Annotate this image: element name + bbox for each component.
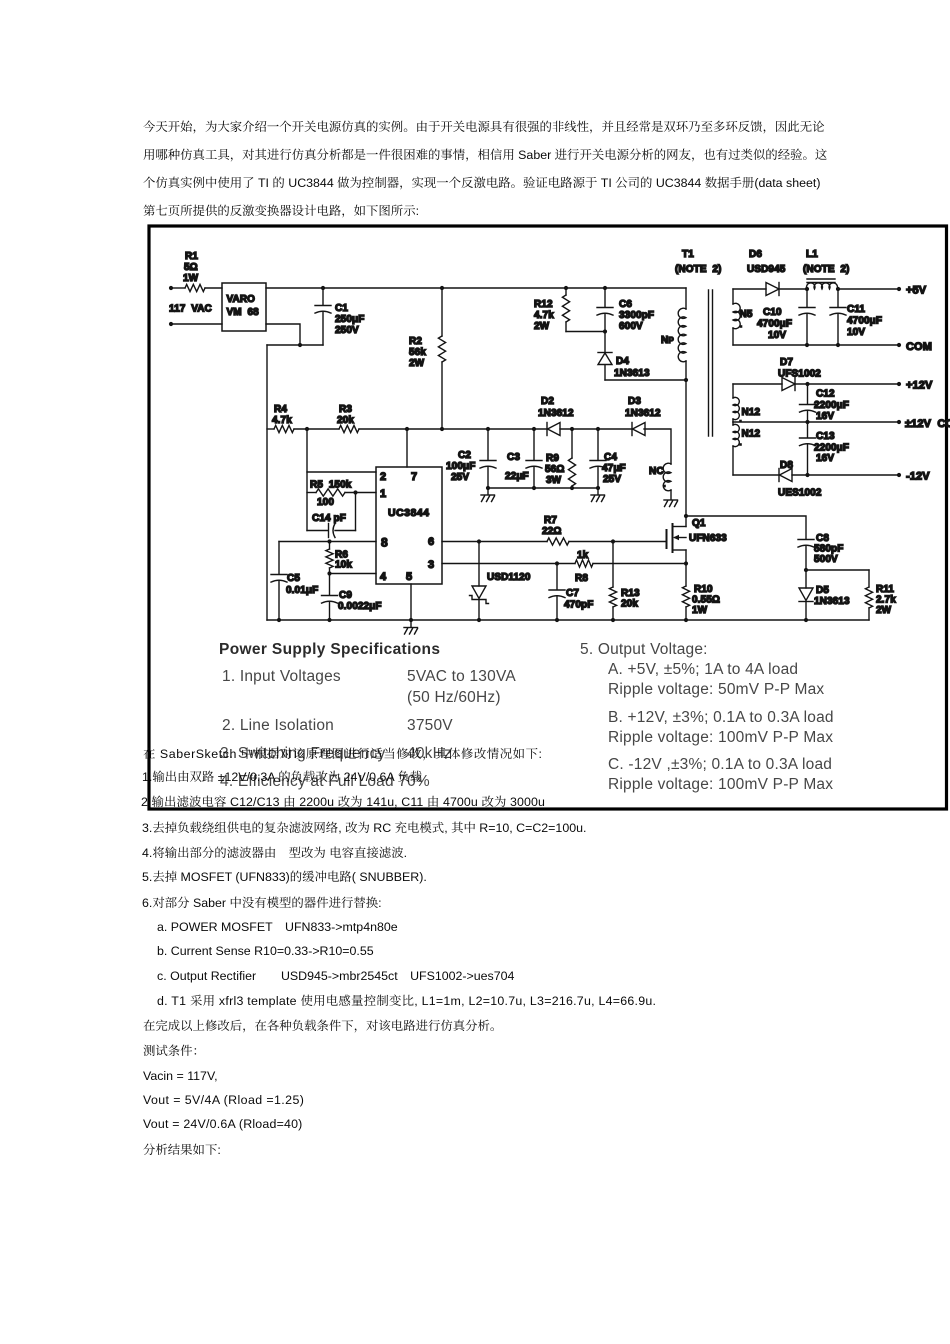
svg-text:1N3612: 1N3612 xyxy=(538,408,574,419)
svg-text:L1: L1 xyxy=(806,249,818,260)
junction xyxy=(277,618,281,622)
svg-text:2200μF: 2200μF xyxy=(814,443,849,454)
svg-text:N12: N12 xyxy=(742,407,761,418)
svg-text:3W: 3W xyxy=(546,475,562,486)
resistor R8 xyxy=(575,560,593,567)
junction xyxy=(611,618,615,622)
svg-text:C5: C5 xyxy=(287,573,300,584)
phase dot xyxy=(739,443,742,446)
svg-text:22Ω: 22Ω xyxy=(542,526,561,537)
wire pin7 VCC xyxy=(406,429,408,467)
junction xyxy=(805,287,809,291)
junction xyxy=(596,427,600,431)
svg-text:1k: 1k xyxy=(577,550,589,561)
svg-text:2.7k: 2.7k xyxy=(876,595,896,606)
svg-text:20k: 20k xyxy=(337,415,354,426)
junction xyxy=(684,378,688,382)
svg-text:C10: C10 xyxy=(763,307,782,318)
svg-text:10V: 10V xyxy=(847,327,865,338)
wire xyxy=(569,541,667,543)
svg-text:COM: COM xyxy=(906,341,932,353)
phase dot xyxy=(663,485,666,488)
diode USD1120 xyxy=(478,542,480,587)
wire xyxy=(779,288,806,290)
diode D8 xyxy=(733,474,779,476)
svg-text:600V: 600V xyxy=(619,321,643,332)
diode D2 xyxy=(546,423,548,436)
svg-text:250V: 250V xyxy=(335,325,359,336)
diode D4 xyxy=(604,332,606,353)
svg-text:R8: R8 xyxy=(575,573,588,584)
capacitor C6 xyxy=(603,286,607,290)
wire bottom rail xyxy=(267,619,869,621)
capacitor C1 xyxy=(321,286,325,290)
svg-text:R9: R9 xyxy=(546,453,559,464)
svg-text:2W: 2W xyxy=(409,358,425,369)
junction xyxy=(477,618,481,622)
junction xyxy=(327,618,331,622)
svg-text:3: 3 xyxy=(428,559,434,571)
svg-text:500V: 500V xyxy=(814,554,838,565)
svg-text:100: 100 xyxy=(317,497,334,508)
transformer winding N5 xyxy=(732,289,734,304)
wire left bus xyxy=(266,345,268,620)
wire xyxy=(267,344,323,346)
svg-text:2200μF: 2200μF xyxy=(814,400,849,411)
resistor R11 xyxy=(868,570,870,587)
wire xyxy=(605,379,686,381)
transformer winding NC xyxy=(663,463,671,491)
svg-text:3300pF: 3300pF xyxy=(619,310,654,321)
svg-text:D3: D3 xyxy=(628,396,641,407)
capacitor C14 xyxy=(307,530,328,532)
junction xyxy=(805,473,809,477)
svg-text:R11: R11 xyxy=(876,584,894,595)
svg-text:470pF: 470pF xyxy=(564,600,593,611)
capacitor C5 xyxy=(278,542,280,574)
node 12V COM xyxy=(897,420,901,424)
svg-text:580pF: 580pF xyxy=(814,544,843,555)
wire xyxy=(560,428,632,430)
resistor R6 xyxy=(329,542,331,550)
ground xyxy=(591,494,605,496)
svg-text:N12: N12 xyxy=(742,429,761,440)
junction xyxy=(570,427,574,431)
wire vcc rail xyxy=(267,428,274,430)
svg-text:1N3613: 1N3613 xyxy=(614,368,650,379)
svg-text:D7: D7 xyxy=(780,357,793,368)
diode D7 xyxy=(733,383,782,385)
svg-text:1: 1 xyxy=(380,488,386,500)
svg-text:+5V: +5V xyxy=(906,285,927,297)
capacitor C4 xyxy=(597,429,599,460)
svg-text:R13: R13 xyxy=(621,588,640,599)
capacitor C9 xyxy=(329,574,331,595)
resistor R13 xyxy=(612,542,614,588)
node +5V xyxy=(897,287,901,291)
junction xyxy=(477,539,481,543)
node +12V xyxy=(897,382,901,386)
wire pin2 VFB xyxy=(307,471,376,473)
svg-text:1N3612: 1N3612 xyxy=(625,408,661,419)
svg-text:4700μF: 4700μF xyxy=(847,316,882,327)
wire xyxy=(355,493,357,531)
junction xyxy=(555,561,559,565)
svg-text:N5: N5 xyxy=(740,309,753,320)
svg-text:Q1: Q1 xyxy=(692,518,706,529)
junction xyxy=(805,382,809,386)
svg-text:C4: C4 xyxy=(604,452,617,463)
wire xyxy=(597,488,599,495)
svg-text:0.01μF: 0.01μF xyxy=(286,585,318,596)
svg-text:C6: C6 xyxy=(619,299,632,310)
junction xyxy=(327,571,331,575)
svg-text:R5 150k: R5 150k xyxy=(310,480,352,491)
phase dot xyxy=(739,420,742,423)
svg-text:C8: C8 xyxy=(816,533,829,544)
svg-text:VARO: VARO xyxy=(227,294,256,305)
svg-text:100μF: 100μF xyxy=(446,461,475,472)
wire xyxy=(837,288,899,290)
junction xyxy=(532,427,536,431)
svg-text:117 VAC: 117 VAC xyxy=(169,304,212,315)
svg-text:4.7k: 4.7k xyxy=(272,415,292,426)
wire pin6 OUT gate drive xyxy=(442,541,547,543)
diode D6 xyxy=(733,288,766,290)
ground xyxy=(664,499,678,501)
ground xyxy=(481,494,495,496)
junction xyxy=(555,618,559,622)
wire xyxy=(359,428,547,430)
svg-text:D6: D6 xyxy=(749,249,762,260)
svg-text:USD1120: USD1120 xyxy=(487,572,531,583)
wire xyxy=(487,488,489,495)
ground xyxy=(404,627,418,629)
svg-text:C13: C13 xyxy=(816,431,835,442)
wire xyxy=(294,428,339,430)
wire xyxy=(593,563,686,565)
svg-text:R3: R3 xyxy=(339,404,352,415)
bridge rectifier VARO VM 68 xyxy=(222,283,266,331)
junction xyxy=(298,343,302,347)
junction xyxy=(684,514,688,518)
svg-text:+12V: +12V xyxy=(906,380,933,392)
svg-text:1W: 1W xyxy=(183,273,199,284)
svg-text:C7: C7 xyxy=(566,588,579,599)
capacitor C8 xyxy=(798,539,814,541)
junction xyxy=(804,618,808,622)
wire snubber xyxy=(686,516,806,539)
wire xyxy=(205,287,222,289)
phase dot xyxy=(740,325,743,328)
wire xyxy=(171,323,222,325)
resistor R4 xyxy=(274,425,294,432)
svg-text:R2: R2 xyxy=(409,336,422,347)
transistor Q1 UFN633 xyxy=(666,530,668,548)
svg-text:±12V COM: ±12V COM xyxy=(905,418,950,430)
wire pin3 ISENSE xyxy=(442,563,575,565)
svg-text:25V: 25V xyxy=(451,472,469,483)
svg-text:C12: C12 xyxy=(816,389,835,400)
svg-text:10k: 10k xyxy=(335,560,352,571)
svg-text:1W: 1W xyxy=(692,605,708,616)
svg-text:UFN633: UFN633 xyxy=(689,533,727,544)
capacitor C7 xyxy=(556,564,558,590)
svg-text:2W: 2W xyxy=(876,605,892,616)
svg-text:UC3844: UC3844 xyxy=(388,507,430,519)
svg-text:250μF: 250μF xyxy=(335,314,364,325)
wire COM rail xyxy=(733,344,899,346)
transformer T1 primary winding NP xyxy=(685,288,687,309)
transformer winding N12 lower xyxy=(732,422,734,425)
junction xyxy=(327,539,331,543)
svg-text:R10: R10 xyxy=(694,584,713,595)
capacitor C12 xyxy=(807,384,809,404)
svg-text:6: 6 xyxy=(428,536,434,548)
wire drain xyxy=(685,380,687,516)
svg-text:(NOTE 2): (NOTE 2) xyxy=(803,264,849,275)
svg-text:R7: R7 xyxy=(544,515,557,526)
wire pin5 GND xyxy=(410,584,412,627)
svg-text:UFS1002: UFS1002 xyxy=(778,369,821,380)
diode D3 xyxy=(631,423,633,436)
wire xyxy=(171,287,185,289)
svg-text:7: 7 xyxy=(411,471,417,483)
junction xyxy=(805,343,809,347)
junction xyxy=(611,539,615,543)
node -12V xyxy=(897,473,901,477)
svg-text:C11: C11 xyxy=(847,304,865,315)
resistor R3 xyxy=(339,425,359,432)
svg-text:2W: 2W xyxy=(534,321,550,332)
svg-text:R4: R4 xyxy=(274,404,287,415)
svg-text:NP: NP xyxy=(661,335,674,346)
junction xyxy=(353,490,357,494)
transformer T1 core xyxy=(708,290,710,436)
svg-text:D8: D8 xyxy=(780,460,793,471)
svg-text:-12V: -12V xyxy=(906,471,930,483)
capacitor C2 xyxy=(487,429,489,460)
junction xyxy=(836,287,840,291)
svg-text:4: 4 xyxy=(380,571,387,583)
wire xyxy=(644,429,671,464)
svg-text:C1: C1 xyxy=(335,303,348,314)
transformer winding N12 upper xyxy=(732,384,734,398)
resistor R9 xyxy=(571,429,573,458)
svg-text:47μF: 47μF xyxy=(602,463,626,474)
wire xyxy=(306,429,308,531)
wire 12V COM rail xyxy=(733,421,899,423)
svg-text:VM 68: VM 68 xyxy=(227,307,260,318)
svg-text:1N3613: 1N3613 xyxy=(814,596,850,607)
svg-text:25V: 25V xyxy=(603,474,621,485)
resistor R10 xyxy=(685,564,687,587)
wire pin4 RT/CT xyxy=(330,573,377,575)
svg-text:C3: C3 xyxy=(507,452,520,463)
svg-text:D4: D4 xyxy=(616,356,629,367)
svg-text:20k: 20k xyxy=(621,599,638,610)
capacitor C11 xyxy=(837,289,839,307)
svg-text:10V: 10V xyxy=(768,330,786,341)
wire xyxy=(795,383,899,385)
svg-text:C9: C9 xyxy=(339,590,352,601)
junction xyxy=(804,568,808,572)
resistor R5 xyxy=(307,492,316,494)
svg-text:0.55Ω: 0.55Ω xyxy=(692,595,720,606)
junction xyxy=(684,561,688,565)
inductor L1 xyxy=(807,283,838,289)
svg-text:UES1002: UES1002 xyxy=(778,488,822,499)
op-amp U1 UC3844 controller xyxy=(376,467,442,584)
node 117 VAC input terminals xyxy=(169,286,173,290)
diode D5 xyxy=(805,570,807,588)
svg-text:16V: 16V xyxy=(816,411,834,422)
schematic frame xyxy=(149,226,947,809)
svg-text:22μF: 22μF xyxy=(505,471,529,482)
wire xyxy=(806,569,869,571)
capacitor C10 xyxy=(806,289,808,307)
svg-text:16V: 16V xyxy=(816,453,834,464)
svg-text:D2: D2 xyxy=(541,396,554,407)
junction xyxy=(405,427,409,431)
capacitor C3 xyxy=(533,429,535,460)
junction node VFB divider xyxy=(305,427,309,431)
resistor R7 xyxy=(547,538,569,545)
svg-text:D5: D5 xyxy=(816,585,829,596)
svg-text:8: 8 xyxy=(381,536,388,550)
junction xyxy=(440,427,444,431)
svg-text:56k: 56k xyxy=(409,347,426,358)
svg-text:5Ω: 5Ω xyxy=(184,262,198,273)
junction xyxy=(486,427,490,431)
wire xyxy=(792,474,899,476)
svg-text:USD945: USD945 xyxy=(747,264,786,275)
svg-text:NC: NC xyxy=(649,466,664,477)
wire top rail xyxy=(266,287,686,289)
svg-text:(NOTE 2): (NOTE 2) xyxy=(675,264,721,275)
junction xyxy=(409,618,413,622)
svg-text:T1: T1 xyxy=(682,249,694,260)
svg-text:C2: C2 xyxy=(458,450,471,461)
wire pin8 VREF xyxy=(279,541,376,543)
svg-text:R1: R1 xyxy=(185,251,198,262)
svg-text:2: 2 xyxy=(380,471,386,483)
svg-text:5: 5 xyxy=(406,571,412,583)
svg-text:4.7k: 4.7k xyxy=(534,310,554,321)
svg-text:R12: R12 xyxy=(534,299,553,310)
junction xyxy=(684,618,688,622)
wire aux bus xyxy=(488,487,598,489)
capacitor C13 xyxy=(807,422,809,437)
resistor R12 xyxy=(564,286,568,290)
svg-text:56Ω: 56Ω xyxy=(545,464,564,475)
resistor R1 xyxy=(185,284,205,291)
svg-text:4700μF: 4700μF xyxy=(757,319,792,330)
junction xyxy=(836,343,840,347)
svg-text:C14 pF: C14 pF xyxy=(312,513,346,524)
junction xyxy=(805,420,809,424)
resistor R2 xyxy=(440,286,444,290)
svg-text:0.0022μF: 0.0022μF xyxy=(338,601,382,612)
node COM xyxy=(897,343,901,347)
wire xyxy=(266,324,300,345)
